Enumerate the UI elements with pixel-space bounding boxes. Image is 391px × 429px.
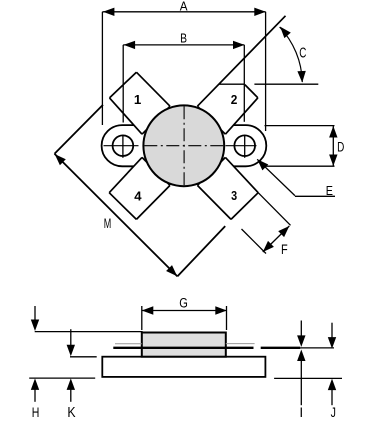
svg-text:D: D	[337, 139, 344, 155]
svg-text:E: E	[326, 183, 333, 198]
leader E	[257, 159, 295, 195]
svg-text:I: I	[299, 405, 303, 420]
svg-text:B: B	[180, 31, 187, 45]
flange upper-left edge	[55, 105, 104, 154]
svg-text:C: C	[299, 45, 306, 61]
lead 4	[109, 157, 170, 219]
svg-text:4: 4	[134, 189, 142, 204]
side view flange	[102, 357, 265, 377]
lead 2	[197, 72, 258, 134]
flange lower-left edge / dimension M line	[55, 154, 178, 277]
leads (side view)	[113, 347, 253, 349]
dimension F	[258, 193, 290, 226]
dimension H	[35, 331, 143, 333]
svg-text:H: H	[32, 404, 40, 420]
right mounting ear	[216, 125, 267, 166]
flange lower-right edge	[177, 226, 225, 276]
svg-text:A: A	[180, 0, 188, 13]
svg-text:M: M	[104, 216, 112, 231]
horizontal centerline	[104, 145, 139, 147]
side view cap	[142, 333, 226, 357]
dimension J	[331, 323, 333, 338]
lead 2 upper-left edge + angle C construction line	[197, 16, 285, 106]
dimension A	[102, 11, 265, 13]
dimension K	[70, 356, 97, 358]
dimension M arrows	[55, 154, 66, 165]
lead 1	[110, 72, 171, 134]
svg-text:G: G	[179, 296, 188, 312]
svg-text:K: K	[67, 405, 75, 421]
svg-text:1: 1	[134, 92, 142, 107]
dimension I	[300, 321, 302, 337]
cap circle	[143, 105, 224, 186]
svg-text:F: F	[281, 242, 288, 257]
svg-text:J: J	[331, 405, 336, 420]
dimension D	[265, 125, 335, 127]
dimension B	[123, 44, 244, 46]
left ear hole	[113, 135, 134, 156]
faint lead top ghost line	[115, 343, 142, 345]
vertical centerline	[183, 105, 185, 188]
svg-text:3: 3	[231, 188, 237, 203]
dimension G	[142, 310, 227, 312]
left mounting ear	[102, 125, 152, 166]
right ear hole	[234, 135, 255, 156]
svg-text:2: 2	[231, 92, 238, 107]
lead 3	[197, 157, 258, 219]
dimension C (angle)	[219, 83, 244, 85]
